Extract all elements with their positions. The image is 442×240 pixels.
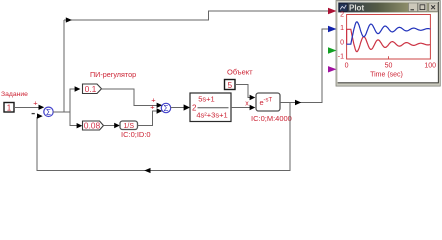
svg-text:5: 5 [228,81,233,90]
svg-text:x: x [245,101,249,108]
summing junction sum2 [161,103,170,113]
arrowhead into delay time input [250,95,256,100]
const block 5 [225,80,236,91]
plot window frame [336,1,440,87]
curve red error signal [347,29,431,51]
arrowhead into sum2 input2 [157,108,163,113]
arrowhead on delay output wire [295,100,301,105]
plot input arrow 1 red [328,8,337,14]
title bar minimize button [409,3,418,12]
svg-text:Plot: Plot [349,4,364,13]
title bar icon [339,3,347,11]
arrowhead into gain 0.08 [77,123,83,128]
gain block 0.08 [83,121,104,131]
svg-text:-sT: -sT [264,98,273,104]
curve blue output signal [347,22,431,44]
plant transfer function block [190,93,231,122]
arrowhead into sum1 plus input [39,105,45,110]
wire const5 to delay time input [235,85,250,98]
wire delay output [280,29,329,103]
arrowhead into integrator [114,123,120,128]
plot window title bar [338,2,438,12]
gain block 0.1 [83,84,102,94]
wire top run to plot [64,11,328,20]
title bar maximize button [418,3,427,12]
wire gain 0.1 to sum2 [102,89,158,106]
plot input arrow 2 blue [328,26,337,32]
minus sign sum1 [32,113,35,115]
svg-text:1: 1 [7,104,12,113]
svg-text:Задание: Задание [1,91,28,98]
svg-text:1: 1 [340,25,344,32]
plot input arrow 4 purple [328,66,337,72]
arrowhead into sum2 input1 [157,103,163,108]
svg-text:0: 0 [345,62,349,69]
x tick 50 [388,56,390,59]
svg-text:Σ: Σ [46,108,51,117]
arrowhead into sum1 minus input [37,113,43,118]
const block 1 [4,103,14,113]
svg-text:Σ: Σ [164,104,169,113]
svg-text:2: 2 [340,11,344,18]
wire feedback into sum1 [37,115,38,117]
wire feedback [37,103,290,171]
svg-text:4s²+3s+1: 4s²+3s+1 [196,111,227,120]
arrowhead on feedback wire [144,168,150,173]
arrowhead into plant block [184,104,190,110]
svg-text:-1: -1 [338,53,344,60]
svg-text:Time (sec): Time (sec) [370,71,403,78]
svg-text:+: + [33,99,38,108]
wire plant to delay [231,107,250,109]
wire branch down to gain 0.08 [70,112,77,126]
svg-text:0: 0 [340,39,344,46]
summing junction sum1 [44,107,53,117]
arrowhead into delay signal input [250,105,256,110]
time delay block [256,93,280,111]
wire branch up to gain 0.1 [70,89,75,112]
svg-text:5s+1: 5s+1 [198,95,214,104]
svg-text:0.1: 0.1 [85,84,97,94]
svg-text:IC:0;ID:0: IC:0;ID:0 [121,130,151,139]
svg-text:0.08: 0.08 [84,121,101,131]
svg-text:Объект: Объект [227,68,253,77]
wire gain 0.08 to integrator [104,125,115,127]
wire integrator to sum2 [138,111,158,125]
wire sum1 output [53,111,70,113]
svg-text:IC:0;M:4000: IC:0;M:4000 [251,114,292,123]
svg-text:ПИ-регулятор: ПИ-регулятор [90,70,136,79]
plot axes box [347,15,431,60]
wire sum2 to plant [171,107,184,109]
arrowhead on top wire [66,17,72,22]
plot input arrow 3 green [328,47,337,53]
svg-text:+: + [150,103,155,112]
svg-text:100: 100 [424,62,436,69]
title bar close button [429,3,438,12]
arrowhead into gain 0.1 [75,86,81,91]
wire const1 to sum1 [14,106,39,108]
svg-text:50: 50 [385,62,393,69]
wire junction up to top [63,20,65,112]
integrator block 1/S [120,121,138,130]
